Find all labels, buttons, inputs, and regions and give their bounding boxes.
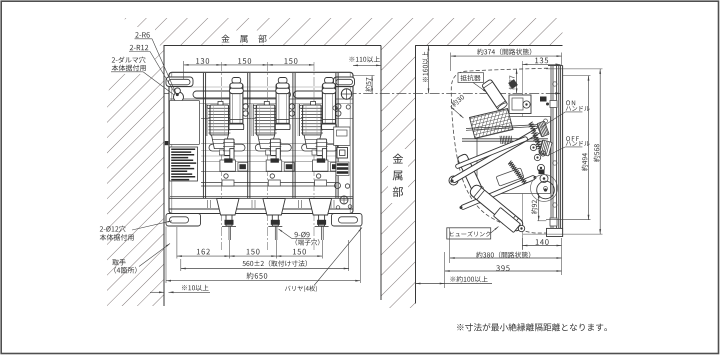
front view: barrier plate 3 — [292, 73, 294, 198]
side view: left carrier lever — [457, 153, 488, 203]
front view: pole 1 center line — [220, 62, 222, 250]
label metal part (middle wall, vertical) — [393, 154, 403, 164]
front view: top-left mounting tab — [166, 77, 193, 87]
front view: right column fittings — [333, 106, 337, 110]
front view: pole 3 center line — [313, 62, 315, 250]
front view: operating shaft slot left — [193, 91, 291, 98]
side view: secondary arm — [455, 136, 528, 169]
side view: ON handle knob — [537, 121, 549, 137]
label 2-dharma-hole for hoisting — [112, 57, 146, 63]
label metal part (top wall) — [221, 35, 266, 43]
dimension 130 (top row) — [183, 61, 185, 79]
hatched wall region left — [107, 46, 164, 307]
side view: fuse link lower contact — [493, 207, 520, 232]
wall surface line middle-right — [415, 45, 417, 303]
front view: operating shaft slot right — [294, 91, 336, 98]
dimension approx 374 open state width — [450, 53, 452, 72]
white box behind metal-part label top — [219, 31, 269, 45]
dimension approx 30 (rotated) — [450, 94, 465, 108]
note: minimum insulation clearance — [457, 323, 607, 331]
front view: barrier plate 4 — [335, 73, 337, 198]
dimension 140 — [521, 238, 523, 250]
label 2-dia12 mounting holes with leader — [100, 226, 126, 232]
hatched wall region middle — [381, 18, 416, 308]
label 2-R12 with leader — [130, 45, 148, 50]
dimension 395 — [444, 252, 446, 288]
dimension approx 494 — [563, 75, 591, 77]
white box behind metal-part label middle wall — [388, 149, 408, 203]
dimension min approx 100 clearance — [416, 283, 445, 285]
dimension 162 (bottom row) — [176, 227, 178, 259]
side view: mounting panel channel — [550, 66, 552, 231]
label fuse link boxed with leader — [447, 228, 491, 239]
label 2-R6 with leader — [135, 32, 149, 37]
dimension approx 380 open state — [449, 228, 451, 263]
front view: main panel outline — [169, 72, 353, 213]
side view: OFF handle knob — [539, 140, 552, 156]
horizontal center line (hinge axis) — [164, 92, 562, 94]
wall surface line top-left — [164, 45, 381, 47]
dimension 150 (bottom row 1) — [230, 255, 277, 257]
label barrier 4 plates with leader — [285, 286, 317, 293]
side view: trip lever plate — [496, 168, 524, 186]
side view: upper thin rod — [466, 125, 540, 129]
dimension approx 77 — [516, 69, 518, 94]
wall surface line top-right — [416, 45, 563, 47]
dimension approx 568 — [546, 68, 603, 70]
front view: left cover plate — [170, 101, 200, 145]
front view: pole 2 center line — [267, 62, 269, 250]
label OFF handle with leader — [566, 136, 579, 141]
dimension approx 57 — [353, 75, 375, 77]
side view: pivot axis vertical line — [521, 61, 523, 250]
side view: striker piece — [508, 79, 518, 89]
dimension 135 — [522, 63, 560, 65]
hatched wall region top-right — [416, 18, 563, 46]
side view: cover outline (open state, dashed) — [451, 68, 559, 233]
dimension 150 (top row, pole1-2) — [221, 64, 267, 66]
front view: rating nameplate — [170, 147, 198, 181]
side view: fuse link tube — [468, 183, 524, 233]
dimension approx 92 — [537, 220, 546, 222]
dimension approx 650 overall width — [165, 227, 167, 284]
white box behind top-left labels — [106, 27, 155, 74]
side view: lower link arm — [460, 175, 535, 210]
side view: pivot link circles — [530, 144, 536, 150]
front view: barrier plate 2 — [247, 73, 249, 198]
side view: main spring — [508, 161, 527, 185]
front view: pole unit 1 — [209, 144, 245, 151]
front view: pole unit 2 — [255, 144, 291, 151]
front view: top-right mounting tab — [334, 77, 355, 87]
label 9-dia9 terminal holes with leader — [295, 232, 310, 238]
front view: pole unit 3 — [302, 144, 338, 151]
label handle 4 places with leader — [112, 259, 125, 265]
side view: mechanism frame plate — [477, 117, 551, 194]
front view: handle shaft circle — [341, 89, 351, 99]
dimension 150 (bottom row 2) — [276, 255, 322, 257]
wall surface line left — [163, 45, 165, 306]
label ON handle with leader — [566, 100, 575, 105]
side view: upper terminal assembly — [509, 95, 531, 114]
side view: resistor cylinder — [482, 79, 509, 111]
side view: connecting rod — [462, 138, 548, 140]
hatched wall region top-left — [119, 18, 381, 46]
dimension min 160 clearance top-right — [428, 46, 430, 94]
dimension min 110 clearance right — [353, 64, 381, 66]
side view: trip spring — [529, 122, 544, 152]
dimension min 10 clearance left — [150, 291, 164, 293]
dimension 150 (top row, pole2-3) — [268, 64, 314, 66]
side view: resistor label box with leader — [458, 73, 484, 83]
wall surface line middle-left — [380, 46, 382, 301]
dimension 560 mounting pitch — [180, 259, 182, 271]
front view: bottom-left foot — [166, 214, 201, 227]
front view: side bolt — [165, 141, 169, 145]
front view: dharma keyhole hole — [174, 92, 184, 102]
front view: panel horizontal lines — [170, 98, 353, 100]
front view: bottom-right foot — [332, 214, 363, 227]
front view: barrier plate 1 — [202, 73, 204, 198]
side view: main operating arm — [451, 127, 543, 184]
side view: black fittings — [539, 170, 545, 175]
